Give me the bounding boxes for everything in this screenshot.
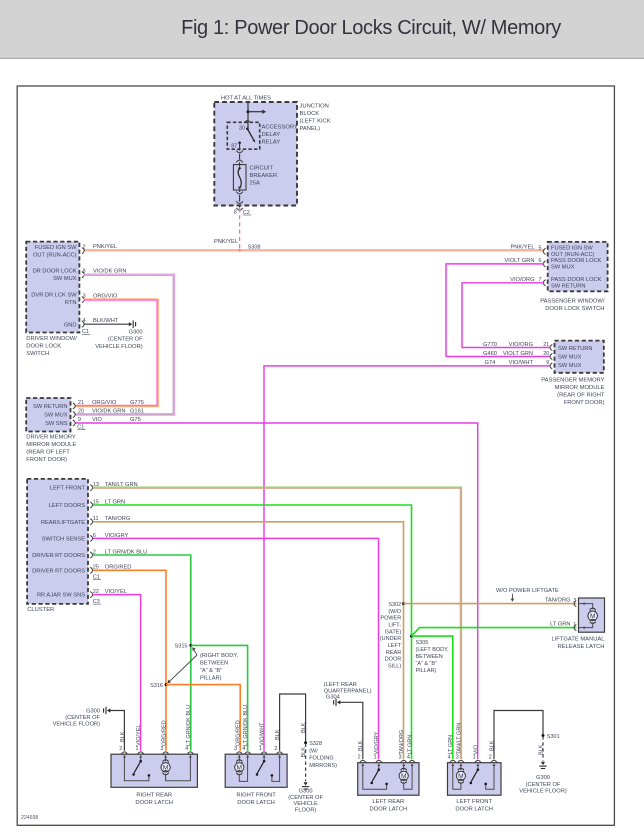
right front door latch bbox=[225, 754, 287, 787]
pin 21 bbox=[73, 403, 75, 409]
svg-text:G300: G300 bbox=[299, 788, 313, 794]
wire LT GRN branch to left front latch bbox=[412, 636, 453, 759]
wire VIO/ORG bbox=[462, 283, 550, 348]
svg-text:20: 20 bbox=[78, 409, 84, 415]
wire CB to connector C2 bbox=[239, 190, 241, 192]
left front latch lock motor bbox=[460, 769, 462, 770]
right front latch lock motor bbox=[238, 761, 240, 762]
pin 6 bbox=[543, 261, 545, 267]
svg-text:BLK: BLK bbox=[301, 747, 307, 758]
svg-text:DRIVER WINDOW/: DRIVER WINDOW/ bbox=[26, 336, 77, 342]
wire VIO/GRY (switch sense) bbox=[93, 538, 379, 759]
svg-text:S328: S328 bbox=[309, 741, 322, 747]
pin 7 bbox=[543, 280, 545, 286]
svg-text:PASSENGER MEMORY: PASSENGER MEMORY bbox=[541, 377, 604, 383]
svg-text:G460: G460 bbox=[483, 351, 497, 357]
wire B+ feed inside junction block bbox=[247, 102, 249, 128]
svg-text:7: 7 bbox=[539, 277, 542, 283]
svg-text:87: 87 bbox=[231, 144, 237, 150]
wire BLK right front latch to S328 bbox=[280, 694, 306, 751]
svg-text:DOOR: DOOR bbox=[385, 657, 402, 663]
svg-text:REAR: REAR bbox=[386, 650, 401, 656]
svg-text:(LEFT BODY,: (LEFT BODY, bbox=[416, 647, 450, 653]
svg-text:SILL): SILL) bbox=[388, 664, 401, 670]
svg-text:CIRCUIT: CIRCUIT bbox=[250, 166, 274, 172]
passenger memory mirror module bbox=[555, 341, 604, 373]
svg-text:G75: G75 bbox=[130, 417, 141, 423]
wire PNK/YEL bus bbox=[84, 249, 545, 251]
pin 9 bbox=[73, 420, 75, 426]
left front latch pin 4 connector bbox=[450, 760, 456, 762]
driver window/door lock switch bbox=[26, 242, 79, 333]
svg-text:(REAR OF RIGHT: (REAR OF RIGHT bbox=[557, 392, 605, 398]
svg-text:6: 6 bbox=[539, 258, 542, 264]
svg-text:PNK/YEL: PNK/YEL bbox=[93, 244, 117, 250]
svg-text:VEHICLE FLOOR): VEHICLE FLOOR) bbox=[95, 344, 143, 350]
right rear latch pin 2 connector bbox=[121, 752, 127, 754]
svg-text:ORG/RED: ORG/RED bbox=[236, 720, 242, 746]
ground G300 (center of vehicle floor, left) bbox=[107, 708, 110, 712]
ground G300 (driver switch) bbox=[129, 322, 132, 326]
svg-text:TAN/LT GRN: TAN/LT GRN bbox=[456, 723, 462, 755]
wire VIO G75 to left front door latch bbox=[76, 423, 478, 759]
svg-text:OUT (RUN-ACC): OUT (RUN-ACC) bbox=[33, 253, 77, 259]
svg-text:FOLDING: FOLDING bbox=[309, 756, 333, 762]
svg-text:SW MUX: SW MUX bbox=[551, 265, 575, 271]
svg-text:FUSED IGN SW: FUSED IGN SW bbox=[35, 245, 77, 251]
connector above circuit breaker bbox=[236, 160, 243, 162]
liftgate manual release latch bbox=[579, 598, 605, 632]
svg-text:FUSED IGN SW: FUSED IGN SW bbox=[551, 245, 593, 251]
svg-text:(W/O: (W/O bbox=[388, 609, 402, 615]
wire TAN/ORG branch to liftgate latch bbox=[404, 603, 577, 605]
svg-text:(CENTER OF: (CENTER OF bbox=[526, 782, 561, 788]
svg-text:TAN/ORG: TAN/ORG bbox=[545, 598, 571, 604]
svg-text:(REAR OF LEFT: (REAR OF LEFT bbox=[26, 449, 70, 455]
svg-text:SWITCH: SWITCH bbox=[26, 351, 49, 357]
svg-text:DOOR LOCK SWITCH: DOOR LOCK SWITCH bbox=[545, 306, 604, 312]
svg-text:VIO: VIO bbox=[473, 744, 479, 754]
svg-text:(LEFT KICK: (LEFT KICK bbox=[300, 118, 331, 124]
node S305 bbox=[410, 635, 413, 638]
right rear latch ajar switch bbox=[139, 760, 142, 763]
svg-text:G161: G161 bbox=[130, 409, 144, 415]
right front latch pin 4 connector bbox=[245, 752, 251, 754]
svg-text:PNK/YEL: PNK/YEL bbox=[510, 244, 534, 250]
relay pin 30 connector bbox=[244, 121, 251, 123]
svg-text:25A: 25A bbox=[250, 181, 260, 187]
pin 4 bbox=[82, 321, 84, 327]
svg-text:PNK/YEL: PNK/YEL bbox=[214, 239, 238, 245]
svg-text:ACCESSORY: ACCESSORY bbox=[262, 125, 298, 131]
svg-text:9: 9 bbox=[78, 417, 81, 423]
svg-text:SW MUX: SW MUX bbox=[53, 276, 77, 282]
wire ORG/VIO bbox=[76, 299, 159, 407]
wire LT GRN branch to liftgate latch bbox=[412, 628, 577, 637]
svg-text:2: 2 bbox=[358, 754, 361, 760]
svg-text:BLK: BLK bbox=[358, 740, 364, 751]
svg-text:LT GRN/DK BLU: LT GRN/DK BLU bbox=[243, 705, 249, 746]
svg-text:RTN: RTN bbox=[65, 300, 77, 306]
pin 20 bbox=[73, 411, 75, 417]
svg-text:LT GRN: LT GRN bbox=[408, 735, 414, 755]
cluster bbox=[27, 479, 88, 604]
svg-text:DOOR LATCH: DOOR LATCH bbox=[455, 807, 493, 813]
right front latch pin 1 connector bbox=[261, 752, 267, 754]
wire VIO/YEL (rr ajar sw sns) bbox=[93, 595, 141, 751]
wire BLK left rear latch to ground G304 bbox=[340, 702, 362, 759]
svg-text:2: 2 bbox=[489, 754, 492, 760]
left front latch pin 3 connector bbox=[458, 760, 464, 762]
svg-text:PILLAR): PILLAR) bbox=[200, 676, 222, 682]
svg-text:RIGHT FRONT: RIGHT FRONT bbox=[236, 793, 276, 799]
svg-text:BREAKER: BREAKER bbox=[250, 173, 278, 179]
svg-text:S305: S305 bbox=[416, 640, 429, 646]
svg-text:G775: G775 bbox=[130, 400, 144, 406]
node S302 bbox=[402, 602, 405, 605]
left rear latch pin 4 connector bbox=[409, 760, 415, 762]
svg-text:PASS DOOR LOCK: PASS DOOR LOCK bbox=[551, 258, 602, 264]
pin 2 bbox=[82, 248, 84, 254]
wire VIO/WHT to right front door latch bbox=[264, 366, 550, 751]
svg-text:SW RETURN: SW RETURN bbox=[33, 404, 67, 410]
svg-text:VEHICLE FLOOR): VEHICLE FLOOR) bbox=[519, 789, 567, 795]
svg-text:BLK: BLK bbox=[538, 744, 544, 755]
left front door latch bbox=[448, 763, 502, 796]
svg-text:2: 2 bbox=[274, 746, 277, 752]
svg-text:VIO/WHT: VIO/WHT bbox=[260, 722, 266, 746]
passenger window/door lock switch bbox=[548, 242, 608, 291]
wire LT GRN/DK BLU (driver rt doors) bbox=[93, 555, 191, 751]
svg-text:30: 30 bbox=[239, 125, 245, 131]
svg-text:4: 4 bbox=[83, 318, 86, 324]
svg-text:TAN/ORG: TAN/ORG bbox=[399, 730, 405, 755]
svg-text:(CENTER OF: (CENTER OF bbox=[65, 715, 100, 721]
svg-text:LIFTGATE MANUAL: LIFTGATE MANUAL bbox=[551, 637, 605, 643]
svg-text:PANEL): PANEL) bbox=[300, 126, 321, 132]
right front latch pin 3 connector bbox=[236, 752, 242, 754]
ground G304 (left rear quarterpanel) bbox=[337, 700, 340, 704]
left front latch motor return bbox=[453, 769, 461, 789]
svg-text:“A” & “B”: “A” & “B” bbox=[200, 668, 222, 674]
connector C2 pin 8 bbox=[236, 208, 243, 210]
wire LT GRN/DK BLU branch to right front latch bbox=[191, 645, 248, 750]
svg-text:VIO/ORG: VIO/ORG bbox=[509, 342, 533, 348]
wire TAN/ORG (rear/liftgate) bbox=[93, 522, 404, 760]
ground G300 (center of vehicle floor, bottom middle) bbox=[304, 782, 308, 785]
svg-text:LT GRN/DK BLU: LT GRN/DK BLU bbox=[186, 705, 192, 746]
svg-text:PASS DOOR LOCK: PASS DOOR LOCK bbox=[551, 277, 602, 283]
svg-text:BLK: BLK bbox=[489, 740, 495, 751]
node S301 bbox=[542, 734, 545, 737]
svg-text:G300: G300 bbox=[536, 775, 550, 781]
svg-text:DELAY: DELAY bbox=[262, 132, 281, 138]
connector in junction block bbox=[236, 150, 243, 152]
pin 9 bbox=[550, 363, 552, 369]
svg-text:REAR/LIFTGATE: REAR/LIFTGATE bbox=[41, 520, 85, 526]
svg-text:5: 5 bbox=[539, 245, 542, 251]
inner wire pin 1 to motor bbox=[579, 622, 593, 627]
svg-text:PILLAR): PILLAR) bbox=[416, 668, 437, 674]
left rear latch lock motor bbox=[403, 769, 405, 770]
wire VIO/DK GRN bbox=[76, 274, 175, 415]
svg-text:(LEFT REAR: (LEFT REAR bbox=[324, 682, 357, 688]
svg-text:SW MUX: SW MUX bbox=[44, 413, 68, 419]
wire ORG/RED branch to right front latch bbox=[166, 685, 240, 751]
pin 5 bbox=[543, 248, 545, 254]
svg-text:GATE): GATE) bbox=[385, 629, 402, 635]
svg-text:DOOR LOCK: DOOR LOCK bbox=[26, 344, 61, 350]
right rear latch switch return path bbox=[124, 761, 148, 781]
accessory delay relay K1 bbox=[227, 122, 259, 149]
wire BLK dashed S301 to ground bbox=[542, 736, 544, 761]
wire BLK/WHT to ground bbox=[84, 323, 129, 325]
svg-text:Fig 1: Power Door Locks Circui: Fig 1: Power Door Locks Circuit, W/ Memo… bbox=[181, 17, 561, 39]
svg-text:DOOR LATCH: DOOR LATCH bbox=[370, 807, 408, 813]
svg-text:MIRROR MODULE: MIRROR MODULE bbox=[555, 385, 605, 391]
svg-text:G300: G300 bbox=[129, 329, 143, 335]
wire VIOLT GRN bbox=[446, 264, 550, 357]
header bar bbox=[0, 0, 644, 58]
wire BLK dashed S328 to ground bbox=[305, 744, 307, 782]
left rear latch pin 2 connector bbox=[360, 760, 366, 762]
svg-text:MIRROR MODULE: MIRROR MODULE bbox=[26, 442, 76, 448]
svg-text:JUNCTION: JUNCTION bbox=[300, 103, 329, 109]
svg-text:DRIVER RT DOORS: DRIVER RT DOORS bbox=[32, 553, 85, 559]
svg-text:LEFT FRONT: LEFT FRONT bbox=[456, 799, 492, 805]
svg-text:DOOR LATCH: DOOR LATCH bbox=[237, 800, 275, 806]
svg-text:DRIVER RT DOORS: DRIVER RT DOORS bbox=[32, 568, 85, 574]
left rear door latch bbox=[358, 763, 419, 796]
svg-text:VIO/GRY: VIO/GRY bbox=[374, 731, 380, 754]
svg-text:SW SNS: SW SNS bbox=[45, 421, 68, 427]
svg-text:“A” & “B”: “A” & “B” bbox=[416, 661, 438, 667]
wire PNK/YEL fused B+ riser (dashed) bbox=[239, 208, 241, 250]
right rear latch motor return bbox=[166, 761, 191, 781]
svg-text:LT GRN: LT GRN bbox=[448, 735, 454, 755]
svg-text:SWITCH SENSE: SWITCH SENSE bbox=[42, 536, 85, 542]
left front latch switch return path bbox=[486, 769, 494, 789]
svg-text:BLK/WHT: BLK/WHT bbox=[93, 318, 119, 324]
node S328 bbox=[304, 741, 307, 744]
pin 20 bbox=[550, 353, 552, 359]
junction block (left kick panel) bbox=[214, 102, 297, 206]
svg-text:LIFT-: LIFT- bbox=[388, 622, 401, 628]
right front latch switch return path bbox=[272, 761, 280, 782]
svg-text:SW RETURN: SW RETURN bbox=[551, 283, 585, 289]
svg-text:VIO: VIO bbox=[92, 417, 102, 423]
wire TAN/LT GRN (left front) bbox=[93, 487, 462, 759]
svg-text:G300: G300 bbox=[86, 708, 100, 714]
svg-text:PASSENGER WINDOW/: PASSENGER WINDOW/ bbox=[540, 298, 605, 304]
svg-text:(CENTER OF: (CENTER OF bbox=[108, 337, 143, 343]
pointer to splices bbox=[194, 649, 198, 655]
motor M liftgate bbox=[590, 608, 596, 610]
svg-text:21: 21 bbox=[543, 342, 549, 348]
svg-text:SW MUX: SW MUX bbox=[558, 355, 582, 361]
svg-text:(RIGHT BODY,: (RIGHT BODY, bbox=[200, 653, 238, 659]
pin 3 connector bbox=[574, 601, 576, 607]
inner wire pin 3 to motor bbox=[579, 604, 593, 610]
svg-text:S302: S302 bbox=[388, 602, 401, 608]
left rear latch pin 1 connector bbox=[376, 760, 382, 762]
right front latch motor return bbox=[239, 761, 247, 782]
svg-text:FRONT DOOR): FRONT DOOR) bbox=[564, 400, 605, 406]
svg-text:HOT AT ALL TIMES: HOT AT ALL TIMES bbox=[221, 95, 271, 101]
svg-text:VEHICLE: VEHICLE bbox=[293, 801, 318, 807]
pin 3 bbox=[82, 297, 84, 303]
svg-text:S316: S316 bbox=[150, 683, 163, 689]
svg-text:DOOR LATCH: DOOR LATCH bbox=[135, 800, 173, 806]
relay blade bbox=[246, 128, 249, 131]
wire LT GRN (left doors) bbox=[93, 505, 412, 759]
node: feed junction bbox=[247, 110, 250, 113]
svg-text:G304: G304 bbox=[326, 695, 340, 701]
svg-text:2: 2 bbox=[119, 746, 122, 752]
right rear latch lock motor bbox=[165, 761, 167, 762]
svg-text:LT GRN: LT GRN bbox=[550, 621, 570, 627]
svg-text:RIGHT REAR: RIGHT REAR bbox=[136, 793, 172, 799]
right front latch pin 2 connector bbox=[277, 752, 283, 754]
svg-text:8: 8 bbox=[234, 209, 237, 215]
pin 1 connector bbox=[574, 625, 576, 631]
svg-text:ORG/RED: ORG/RED bbox=[161, 720, 167, 746]
svg-text:MIRRORS): MIRRORS) bbox=[309, 763, 337, 769]
svg-text:VIO/DK GRN: VIO/DK GRN bbox=[92, 409, 126, 415]
svg-text:LEFT FRONT: LEFT FRONT bbox=[50, 486, 85, 492]
svg-text:S315: S315 bbox=[175, 644, 188, 650]
left front latch ajar switch bbox=[477, 768, 480, 771]
svg-text:BLK: BLK bbox=[120, 731, 126, 742]
svg-text:BLK: BLK bbox=[301, 722, 307, 733]
svg-text:S301: S301 bbox=[547, 734, 560, 740]
right rear latch pin 4 connector bbox=[187, 752, 193, 754]
svg-text:SW RETURN: SW RETURN bbox=[558, 346, 592, 352]
circuit breaker 25A bbox=[233, 165, 246, 190]
right rear door latch bbox=[111, 754, 197, 787]
right rear latch pin 3 connector bbox=[163, 752, 169, 754]
svg-text:G770: G770 bbox=[483, 342, 497, 348]
svg-text:LEFT REAR: LEFT REAR bbox=[372, 799, 404, 805]
svg-text:RELAY: RELAY bbox=[262, 140, 281, 146]
relay pin 87 bbox=[238, 142, 241, 145]
svg-text:(W/: (W/ bbox=[309, 748, 318, 754]
svg-text:RELEASE LATCH: RELEASE LATCH bbox=[558, 644, 605, 650]
svg-text:(UNDER: (UNDER bbox=[380, 636, 401, 642]
svg-text:DR DOOR LOCK: DR DOOR LOCK bbox=[33, 269, 77, 275]
svg-text:BETWEEN: BETWEEN bbox=[200, 661, 228, 667]
svg-text:GND: GND bbox=[64, 322, 77, 328]
svg-text:2: 2 bbox=[83, 245, 86, 251]
wire BLK right rear latch to ground bbox=[110, 711, 124, 751]
svg-text:BLK: BLK bbox=[275, 729, 281, 740]
svg-text:DRIVER MEMORY: DRIVER MEMORY bbox=[26, 434, 76, 440]
right front latch ajar switch bbox=[263, 760, 266, 763]
svg-text:LEFT: LEFT bbox=[388, 643, 402, 649]
svg-text:RR AJAR SW SNS: RR AJAR SW SNS bbox=[37, 593, 85, 599]
left rear latch ajar switch bbox=[378, 768, 381, 771]
left rear latch motor return bbox=[404, 769, 412, 789]
svg-text:QUARTERPANEL): QUARTERPANEL) bbox=[324, 688, 372, 694]
left front latch pin 2 connector bbox=[491, 760, 497, 762]
svg-text:W/O POWER LIFTGATE: W/O POWER LIFTGATE bbox=[496, 588, 559, 594]
svg-text:SW MUX: SW MUX bbox=[558, 363, 582, 369]
ground G300 (center of vehicle floor, right) bbox=[541, 762, 545, 765]
svg-text:(CENTER OF: (CENTER OF bbox=[288, 795, 323, 801]
wire BLK left front latch to S301 bbox=[494, 711, 543, 760]
svg-text:FRONT DOOR): FRONT DOOR) bbox=[26, 457, 67, 463]
left rear latch switch return path bbox=[363, 769, 387, 789]
svg-text:224698: 224698 bbox=[21, 815, 38, 821]
svg-text:ORG/VIO: ORG/VIO bbox=[92, 400, 117, 406]
svg-text:21: 21 bbox=[78, 400, 84, 406]
driver memory mirror module bbox=[26, 398, 70, 432]
left rear latch pin 3 connector bbox=[401, 760, 407, 762]
svg-text:POWER: POWER bbox=[380, 616, 401, 622]
left front latch pin 1 connector bbox=[475, 760, 481, 762]
right rear latch pin 1 connector bbox=[138, 752, 144, 754]
svg-text:CLUSTER: CLUSTER bbox=[27, 607, 54, 613]
wire ORG/RED (driver rt doors) bbox=[93, 570, 166, 751]
svg-text:BLOCK: BLOCK bbox=[300, 111, 320, 117]
svg-text:BETWEEN: BETWEEN bbox=[416, 654, 443, 660]
svg-text:VIO/YEL: VIO/YEL bbox=[136, 725, 142, 746]
svg-text:FLOOR): FLOOR) bbox=[295, 808, 317, 814]
svg-text:LEFT DOORS: LEFT DOORS bbox=[49, 503, 85, 509]
svg-text:VEHICLE FLOOR): VEHICLE FLOOR) bbox=[53, 722, 101, 728]
svg-text:DVR DR LCK SW: DVR DR LCK SW bbox=[31, 293, 77, 299]
wire branch arrow bbox=[248, 111, 263, 113]
svg-text:VIOLT GRN: VIOLT GRN bbox=[503, 351, 533, 357]
svg-text:20: 20 bbox=[543, 351, 549, 357]
pin 21 bbox=[550, 344, 552, 350]
pin 8 bbox=[82, 272, 84, 278]
